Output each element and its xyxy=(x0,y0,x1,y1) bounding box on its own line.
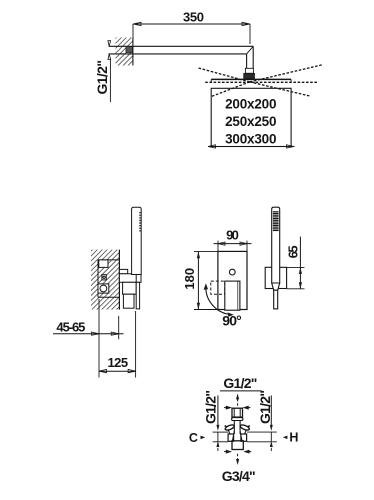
svg-text:G1/2": G1/2" xyxy=(203,390,219,424)
svg-text:250x250: 250x250 xyxy=(225,114,276,129)
svg-text:350: 350 xyxy=(183,9,204,24)
svg-text:G1/2": G1/2" xyxy=(94,60,110,95)
svg-text:90: 90 xyxy=(226,228,239,243)
svg-text:45-65: 45-65 xyxy=(56,319,85,334)
svg-text:300x300: 300x300 xyxy=(225,132,276,147)
svg-text:G3/4": G3/4" xyxy=(222,468,256,484)
svg-text:90°: 90° xyxy=(222,313,242,329)
svg-text:G1/2": G1/2" xyxy=(223,375,257,391)
svg-text:G1/2": G1/2" xyxy=(257,390,273,424)
svg-text:125: 125 xyxy=(108,355,129,370)
svg-text:65: 65 xyxy=(286,245,301,258)
svg-text:180: 180 xyxy=(182,268,197,290)
svg-text:200x200: 200x200 xyxy=(225,97,276,112)
svg-text:C: C xyxy=(189,431,198,445)
svg-text:H: H xyxy=(289,431,298,445)
